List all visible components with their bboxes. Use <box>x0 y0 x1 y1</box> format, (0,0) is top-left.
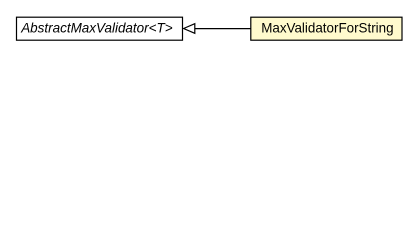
class box AbstractMaxValidator<T> <box>17 17 183 40</box>
generalization arrowhead (hollow triangle) <box>184 24 195 34</box>
class box MaxValidatorForString (highlighted) <box>251 17 402 40</box>
svg-text:AbstractMaxValidator<T>: AbstractMaxValidator<T> <box>20 20 172 36</box>
inheritance edge line <box>195 28 251 30</box>
background <box>0 0 417 59</box>
svg-text:MaxValidatorForString: MaxValidatorForString <box>261 20 393 36</box>
